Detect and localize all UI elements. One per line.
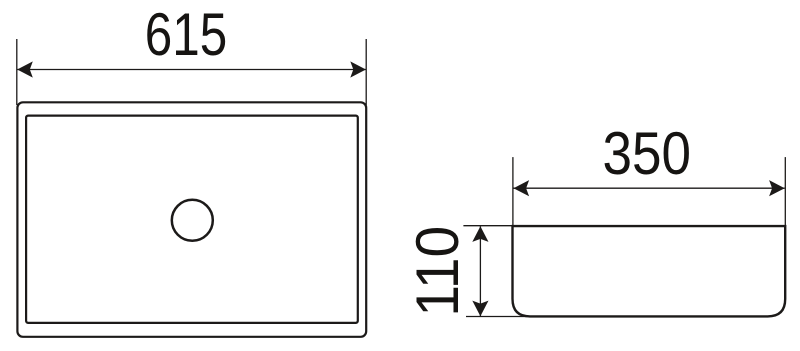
dim 350 label: [603, 119, 692, 187]
top view outer outline: [17, 102, 366, 336]
dim 615 label: [145, 0, 227, 68]
dim 110 top extension line: [463, 225, 512, 227]
top view inner rim: [26, 116, 358, 323]
dim 615 right arrow: [350, 61, 366, 77]
drain hole circle: [172, 200, 213, 241]
svg-text:350: 350: [603, 119, 692, 187]
dim 615 left arrow: [17, 61, 33, 77]
dim 615 left extension line: [16, 39, 18, 105]
side view outline: [513, 226, 786, 316]
dim 350 right arrow: [769, 180, 785, 196]
dim 110 label (rotated): [403, 226, 471, 317]
dim 350 dimension line: [514, 187, 785, 189]
dim 350 left arrow: [514, 180, 530, 196]
svg-text:615: 615: [145, 0, 227, 68]
dim 110 top arrow: [472, 226, 488, 242]
dim 110 bottom extension line: [466, 316, 527, 318]
dim 350 right extension line: [784, 157, 786, 225]
dim 615 dimension line: [17, 69, 366, 71]
dim 350 left extension line: [512, 157, 514, 225]
dim 615 right extension line: [365, 39, 367, 105]
dim 110 dimension line: [479, 226, 481, 316]
svg-text:110: 110: [403, 226, 471, 317]
dim 110 bottom arrow: [472, 301, 488, 317]
